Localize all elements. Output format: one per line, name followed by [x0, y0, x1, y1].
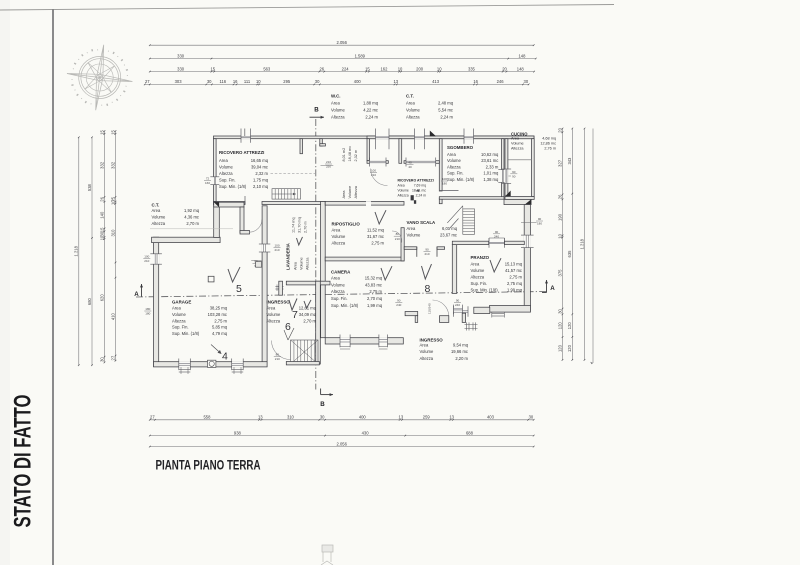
svg-text:210: 210: [424, 252, 429, 256]
svg-text:938: 938: [234, 430, 242, 435]
section marker A left: [134, 284, 143, 298]
svg-text:2,75 m: 2,75 m: [509, 274, 522, 279]
svg-text:Altezza: Altezza: [511, 146, 524, 150]
door arc ingresso8: [433, 300, 449, 316]
svg-text:Altezza: Altezza: [331, 289, 345, 294]
svg-text:Altezza: Altezza: [172, 318, 186, 323]
svg-text:120: 120: [557, 322, 562, 330]
svg-text:2,24 m: 2,24 m: [365, 115, 378, 120]
svg-text:180: 180: [145, 307, 150, 311]
svg-text:1.218: 1.218: [579, 238, 584, 249]
svg-text:1,01 mq: 1,01 mq: [483, 171, 499, 176]
corner black cucino: [505, 191, 511, 197]
dim chain top row1 total 2.056: [149, 40, 535, 46]
svg-text:Sup. Fin.: Sup. Fin.: [471, 281, 488, 286]
window cucino left: [505, 169, 509, 183]
svg-text:10: 10: [256, 79, 261, 84]
window garage bottom 1: [179, 361, 191, 367]
svg-text:9,54 mq: 9,54 mq: [453, 342, 469, 347]
svg-text:38,25 mq: 38,25 mq: [210, 306, 228, 311]
svg-text:12,86 mc: 12,86 mc: [540, 141, 556, 145]
svg-text:10: 10: [110, 200, 115, 205]
svg-text:1.589: 1.589: [355, 53, 366, 58]
table C.T. left: [152, 203, 200, 226]
svg-text:680: 680: [87, 297, 92, 305]
table VANO SCALA: [407, 220, 458, 237]
label window 90/90 sgombero: [506, 170, 517, 179]
svg-text:80: 80: [396, 232, 400, 236]
svg-text:Volume: Volume: [407, 232, 422, 237]
svg-text:10: 10: [99, 235, 104, 240]
svg-text:C.T.: C.T.: [406, 94, 414, 99]
svg-text:B: B: [314, 107, 319, 114]
svg-text:Area: Area: [447, 152, 456, 157]
svg-text:240: 240: [396, 303, 401, 307]
svg-text:30: 30: [524, 79, 529, 84]
svg-text:Volume: Volume: [398, 188, 409, 192]
svg-text:5,54 mc: 5,54 mc: [438, 108, 453, 113]
scan shading left edge: [0, 0, 10, 565]
corner triangle ricovero: [214, 202, 219, 207]
svg-text:190: 190: [557, 213, 562, 221]
svg-text:41,57 mc: 41,57 mc: [505, 268, 522, 273]
wall garage top: [152, 237, 221, 242]
svg-text:15: 15: [99, 129, 104, 134]
svg-text:330: 330: [177, 53, 185, 58]
svg-text:100: 100: [371, 169, 376, 173]
wall ricovero left: [214, 139, 217, 202]
window ingresso top sill: [275, 285, 283, 292]
svg-text:148: 148: [518, 53, 526, 58]
window sill pranzo bottom: [492, 312, 505, 318]
svg-text:90: 90: [512, 174, 516, 178]
svg-text:2,76 m: 2,76 m: [544, 146, 556, 150]
svg-text:2,70 mq: 2,70 mq: [367, 296, 383, 301]
svg-text:4,36 mc: 4,36 mc: [184, 214, 199, 219]
svg-text:27: 27: [110, 355, 115, 360]
pillar garage middle: [208, 276, 214, 282]
svg-text:Area: Area: [511, 137, 520, 141]
svg-text:1,38 mq: 1,38 mq: [483, 177, 499, 182]
wall hall doorway right: [437, 247, 445, 250]
window ingresso8 step: [454, 306, 468, 316]
svg-text:4,22 mc: 4,22 mc: [363, 108, 378, 113]
svg-text:120: 120: [567, 344, 572, 352]
svg-text:330: 330: [177, 66, 185, 71]
svg-text:Altezza: Altezza: [152, 221, 166, 226]
wall right mid vertical: [524, 205, 530, 311]
section line A-A horizontal: [136, 292, 548, 298]
svg-text:310: 310: [287, 415, 295, 420]
svg-text:Altezza: Altezza: [420, 356, 434, 361]
window sill camera 1: [340, 347, 350, 350]
svg-text:Altezza: Altezza: [471, 274, 485, 279]
door arc wc: [371, 169, 388, 186]
svg-text:558: 558: [203, 415, 211, 420]
label 210/250 left: [321, 160, 334, 169]
svg-text:90: 90: [397, 298, 401, 302]
jamb hall doorway left: [416, 247, 418, 257]
svg-text:26: 26: [319, 66, 324, 71]
svg-text:INGRESSO: INGRESSO: [267, 299, 291, 304]
checkmark pranzo: [490, 258, 501, 272]
svg-text:2.056: 2.056: [337, 441, 348, 446]
svg-text:327: 327: [557, 159, 562, 167]
svg-text:210: 210: [326, 160, 331, 164]
window small-ricovero band: [406, 160, 436, 164]
svg-text:31,70 mq: 31,70 mq: [298, 217, 302, 233]
wall ct-room top: [214, 202, 244, 207]
door arc ct: [250, 220, 263, 233]
svg-text:Altezza: Altezza: [219, 171, 233, 176]
svg-text:332: 332: [99, 161, 104, 169]
svg-text:Area: Area: [407, 226, 416, 231]
svg-text:563: 563: [263, 66, 271, 71]
svg-text:10: 10: [398, 66, 403, 71]
dim chain bottom row3: [149, 441, 535, 447]
wall main right upper: [531, 139, 534, 197]
wall small-ricovero right: [439, 139, 442, 191]
table INGRESSO 6-7: [267, 299, 317, 323]
svg-text:343: 343: [567, 157, 572, 165]
svg-text:90: 90: [512, 170, 516, 174]
svg-text:103,28 mc: 103,28 mc: [208, 312, 227, 317]
svg-text:LAVANDERIA: LAVANDERIA: [286, 243, 291, 270]
svg-text:2,24 m: 2,24 m: [416, 193, 427, 197]
svg-text:13: 13: [394, 79, 399, 84]
svg-text:Sup. Min. (1/8): Sup. Min. (1/8): [172, 331, 200, 336]
svg-text:RIPOSTIGLIO: RIPOSTIGLIO: [332, 221, 361, 226]
svg-text:31,67 mc: 31,67 mc: [367, 234, 384, 239]
wall pranzo bottom: [490, 306, 531, 313]
svg-text:Area: Area: [267, 306, 276, 311]
svg-text:PIANTA PIANO TERRA: PIANTA PIANO TERRA: [156, 458, 261, 474]
svg-text:Volume: Volume: [406, 108, 421, 113]
svg-text:15: 15: [110, 129, 115, 134]
svg-text:Altezza: Altezza: [267, 318, 281, 323]
svg-text:10: 10: [557, 233, 562, 238]
svg-text:30: 30: [529, 415, 534, 420]
table RICOVERO small: [398, 178, 434, 197]
stairs vano scala: [447, 206, 474, 234]
svg-text:Area: Area: [331, 276, 340, 281]
dashed line upper2: [317, 174, 526, 212]
label window garage left: [143, 255, 150, 264]
svg-text:246: 246: [497, 79, 505, 84]
door gap tick ricovero bottom: [244, 196, 246, 205]
svg-text:111: 111: [244, 79, 251, 84]
window wc bottom: [370, 160, 387, 164]
svg-text:90: 90: [495, 230, 499, 234]
svg-text:210: 210: [274, 248, 279, 252]
svg-text:180: 180: [442, 182, 447, 186]
svg-text:210: 210: [275, 357, 280, 361]
arrow room 4: [211, 345, 221, 354]
svg-text:RICOVERO ATTREZZI: RICOVERO ATTREZZI: [219, 150, 264, 155]
svg-text:PRANZO: PRANZO: [471, 255, 490, 260]
label door 100/180 sgombero: [441, 177, 448, 186]
svg-text:30: 30: [99, 357, 104, 362]
svg-text:2,33 m: 2,33 m: [486, 164, 499, 169]
dim chain right col3 1.218: [579, 128, 585, 361]
wall wc left: [367, 139, 369, 161]
svg-text:2,20 m: 2,20 m: [455, 356, 468, 361]
svg-text:Volume: Volume: [219, 165, 234, 170]
svg-text:250: 250: [326, 165, 331, 169]
svg-text:16: 16: [233, 79, 238, 84]
section line B-B vertical: [315, 119, 317, 390]
svg-text:C.T.: C.T.: [152, 203, 160, 208]
table CUCINO: [511, 131, 556, 150]
wall garage left: [154, 237, 159, 366]
dim chain left col2: [87, 136, 93, 366]
svg-text:410: 410: [110, 312, 115, 320]
wall notch top-junction vertical: [320, 139, 323, 146]
wall ripostiglio right: [401, 228, 404, 261]
svg-text:18,81 mc: 18,81 mc: [412, 188, 426, 192]
wall ingresso8 step block: [440, 316, 449, 323]
wall ripostiglio-camera divider: [325, 257, 404, 261]
svg-text:430: 430: [362, 430, 370, 435]
svg-text:RICOVERO ATTREZZI: RICOVERO ATTREZZI: [398, 178, 434, 182]
table INGRESSO 8: [420, 337, 469, 361]
svg-text:6: 6: [285, 321, 291, 333]
wall ingresso top: [286, 281, 330, 285]
wall small-ricovero bottom band: [404, 161, 439, 164]
window ingresso8 right piece: [454, 307, 463, 311]
dim chain right col1: [557, 127, 563, 360]
wall pranzo top right: [505, 241, 525, 244]
stairs upper hall: [272, 189, 301, 199]
svg-text:Volume: Volume: [420, 349, 435, 354]
corner black right mid: [525, 199, 531, 204]
window pranzo balcony recess: [489, 238, 505, 248]
window sill garage 2: [232, 367, 244, 374]
svg-text:5: 5: [236, 283, 242, 295]
svg-text:Sup. Min. (1/8): Sup. Min. (1/8): [331, 303, 359, 308]
label hall doorway: [424, 248, 431, 257]
svg-text:Area: Area: [294, 261, 298, 270]
svg-text:148: 148: [517, 66, 525, 71]
svg-text:295: 295: [283, 79, 291, 84]
svg-text:303: 303: [175, 79, 183, 84]
chimney black top: [430, 131, 436, 137]
svg-text:Volume: Volume: [348, 186, 352, 199]
svg-text:2,75 mq: 2,75 mq: [507, 281, 523, 286]
wall wc right: [399, 139, 402, 164]
svg-text:2,10 mq: 2,10 mq: [253, 184, 269, 189]
svg-text:1,75 mq: 1,75 mq: [253, 178, 269, 183]
wall garage bottom: [154, 362, 268, 367]
svg-text:688: 688: [466, 430, 474, 435]
dim chain bottom row1: [149, 415, 535, 421]
svg-text:635: 635: [567, 250, 572, 258]
svg-text:Sup. Min. (1/8): Sup. Min. (1/8): [219, 184, 247, 189]
svg-text:413: 413: [432, 79, 440, 84]
svg-text:VANO SCALA: VANO SCALA: [407, 220, 437, 225]
svg-text:A: A: [134, 291, 139, 298]
wall hall top middle: [325, 202, 404, 206]
checkmark camera: [381, 266, 392, 280]
svg-text:7: 7: [292, 309, 298, 321]
svg-text:Sup. Fin.: Sup. Fin.: [447, 171, 464, 176]
left frame line: [52, 10, 54, 565]
line cucino counter: [508, 159, 532, 161]
svg-text:90: 90: [456, 298, 460, 302]
wall cucino bottom: [505, 197, 534, 200]
door pivot small-ricovero a: [411, 195, 414, 200]
svg-text:Altezza: Altezza: [354, 185, 358, 198]
label door 100/210 wc: [370, 169, 377, 178]
dim chain left col4: [110, 129, 116, 361]
wall ingresso8 step vertical: [415, 316, 418, 323]
window sill ingresso8 below: [465, 322, 478, 330]
svg-text:Volume: Volume: [267, 312, 282, 317]
dim chain top row2: [149, 53, 537, 59]
table CAMERA: [331, 270, 383, 308]
svg-text:23,67 mc: 23,67 mc: [440, 232, 457, 237]
svg-text:2,32 m: 2,32 m: [354, 150, 358, 162]
svg-text:2,70 m: 2,70 m: [303, 318, 316, 323]
svg-text:1,99 mq: 1,99 mq: [367, 303, 383, 308]
wall ingresso8 bottom right: [474, 307, 490, 313]
svg-text:20: 20: [557, 127, 562, 132]
svg-text:GARAGE: GARAGE: [172, 299, 191, 304]
svg-text:13: 13: [449, 415, 454, 420]
svg-text:90: 90: [425, 248, 429, 252]
svg-text:140: 140: [99, 211, 104, 219]
wall top right part: [367, 136, 534, 139]
svg-text:27: 27: [145, 79, 150, 84]
svg-text:Sup. Min. (1/8): Sup. Min. (1/8): [471, 287, 499, 292]
window garage left: [153, 254, 159, 264]
svg-text:80: 80: [276, 353, 280, 357]
wall notch top-junction horizontal: [320, 144, 326, 146]
svg-text:STATO DI FATTO: STATO DI FATTO: [10, 395, 37, 528]
svg-text:259: 259: [423, 415, 431, 420]
wall ricovero bottom 1: [214, 202, 246, 205]
label door 80/210 ripostiglio: [394, 232, 487, 241]
window right mid: [524, 235, 531, 248]
checkmark ingresso8: [422, 264, 432, 279]
svg-text:240: 240: [455, 303, 460, 307]
checkmark ripostiglio: [375, 210, 386, 224]
svg-text:13: 13: [258, 415, 263, 420]
svg-text:18,48 mc: 18,48 mc: [348, 146, 352, 162]
svg-text:403: 403: [487, 415, 495, 420]
window garage bottom 2: [232, 361, 244, 367]
dim chain right col4: [592, 129, 594, 364]
door leaf ricovero top: [244, 129, 246, 137]
svg-text:B: B: [320, 401, 325, 408]
svg-text:Volume: Volume: [331, 282, 346, 287]
label 40/40: [407, 161, 414, 170]
svg-text:30: 30: [557, 308, 562, 313]
checkmark room 5: [228, 267, 240, 282]
wall ingresso8 right vertical: [462, 313, 465, 322]
scan artifact bottom: [321, 545, 333, 565]
wall right mid top band: [504, 199, 531, 204]
window sill camera 2: [379, 347, 388, 350]
checkmark room 7b: [304, 300, 311, 308]
top frame line: [0, 5, 614, 11]
svg-text:Area: Area: [406, 101, 415, 106]
svg-text:72: 72: [206, 176, 210, 180]
stairs ingresso: [291, 340, 319, 364]
svg-text:Volume: Volume: [331, 108, 346, 113]
svg-text:1.218: 1.218: [74, 245, 79, 256]
svg-text:Volume: Volume: [471, 268, 486, 273]
svg-text:Sup. Fin.: Sup. Fin.: [172, 325, 189, 330]
svg-text:23,61 mc: 23,61 mc: [481, 158, 498, 163]
svg-text:Volume: Volume: [511, 141, 524, 145]
arrow ricovero small: [416, 190, 420, 192]
wall ct-room bottom stub: [240, 231, 250, 235]
svg-text:40: 40: [408, 165, 412, 169]
svg-text:332: 332: [110, 161, 115, 169]
svg-text:Volume: Volume: [152, 214, 167, 219]
svg-text:120: 120: [567, 322, 572, 330]
hall vertical table: [342, 146, 358, 199]
window top-wall 1: [376, 136, 390, 140]
svg-text:Volume: Volume: [447, 158, 462, 163]
svg-text:Area: Area: [219, 158, 228, 163]
checkmark lavanderia: [297, 237, 303, 245]
svg-text:27: 27: [150, 415, 155, 420]
svg-text:Area: Area: [172, 306, 181, 311]
svg-text:224: 224: [342, 66, 350, 71]
table W.C.: [331, 94, 379, 120]
svg-text:6,01 mq: 6,01 mq: [442, 226, 458, 231]
svg-text:7,69 mq: 7,69 mq: [414, 184, 426, 188]
svg-text:180: 180: [145, 312, 150, 316]
svg-text:1,88 mq: 1,88 mq: [363, 101, 379, 106]
svg-text:10,62 mq: 10,62 mq: [481, 152, 499, 157]
svg-text:8: 8: [425, 283, 431, 295]
wall ct-room vertical left: [214, 202, 220, 237]
svg-text:200: 200: [416, 66, 424, 71]
svg-text:2,75 m: 2,75 m: [369, 289, 382, 294]
window top-wall 2: [415, 136, 425, 140]
section marker A right: [542, 280, 555, 293]
svg-text:210: 210: [395, 237, 400, 241]
label window right mid 90/180: [521, 217, 543, 226]
svg-text:Area: Area: [331, 101, 340, 106]
svg-text:Sup. Min. (1/8): Sup. Min. (1/8): [447, 177, 475, 182]
svg-text:Area: Area: [152, 208, 161, 213]
compass rose: [63, 41, 137, 115]
svg-text:Area: Area: [342, 190, 346, 199]
window top-wall 3: [464, 136, 474, 140]
checkmark room 7a: [289, 299, 297, 311]
window sill garage 1: [179, 367, 191, 374]
dim chain top row3: [149, 66, 535, 72]
wall ricovero right stub: [300, 139, 303, 154]
window garage right: [262, 244, 268, 252]
label 90/240 left: [395, 298, 402, 307]
svg-text:A: A: [550, 285, 555, 292]
door pivot small-ricovero b: [414, 200, 416, 204]
wall vano scala right: [452, 244, 456, 293]
table GARAGE: [172, 299, 228, 336]
svg-text:2,48 mq: 2,48 mq: [438, 101, 454, 106]
dim chain right col2: [567, 128, 573, 361]
window top-wall door ricovero: [241, 136, 251, 140]
svg-text:34,09 mq: 34,09 mq: [299, 312, 317, 317]
svg-text:100: 100: [144, 255, 149, 259]
window camera bottom 2: [379, 337, 388, 344]
wall camera bottom: [325, 338, 403, 344]
